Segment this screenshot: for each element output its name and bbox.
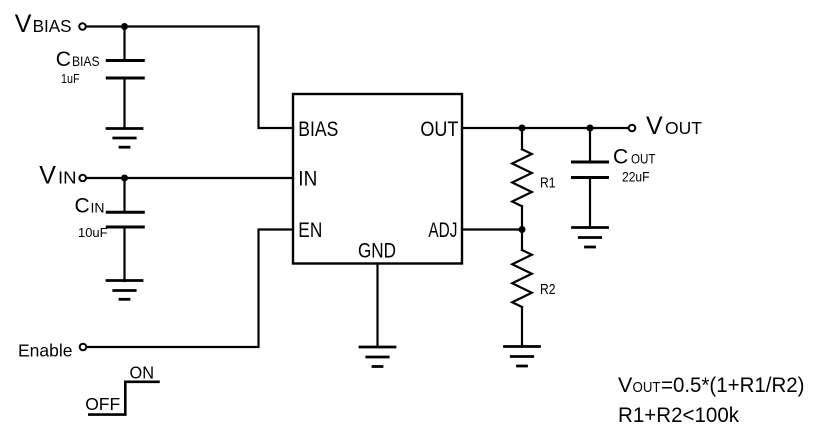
- enable waveform step: [89, 382, 158, 415]
- wire COUT bottom: [589, 179, 591, 228]
- svg-text:C: C: [75, 194, 90, 217]
- ground (CIN): [107, 281, 142, 300]
- terminal Enable: [80, 344, 87, 351]
- svg-text:OUT: OUT: [631, 151, 656, 167]
- resistor R1: [512, 149, 532, 206]
- svg-text:BIAS: BIAS: [72, 53, 100, 69]
- capacitor CIN: [107, 212, 143, 227]
- wire CIN bottom: [123, 229, 125, 282]
- svg-text:1uF: 1uF: [61, 71, 80, 86]
- wire OUT to VOUT: [462, 127, 629, 129]
- svg-text:=0.5*(1+R1/R2): =0.5*(1+R1/R2): [661, 373, 805, 397]
- wire R2 bottom: [521, 307, 523, 347]
- svg-text:OUT: OUT: [665, 118, 702, 138]
- svg-text:Enable: Enable: [18, 340, 73, 360]
- wire CBIAS bottom: [123, 80, 125, 129]
- label CBIAS: [56, 48, 100, 71]
- svg-text:C: C: [56, 48, 71, 71]
- junction OUT/COUT: [587, 125, 594, 132]
- wire VIN to IN pin: [87, 177, 293, 179]
- label COUT: [613, 146, 656, 169]
- junction ADJ/R1/R2: [519, 226, 526, 233]
- op-amp U1 (regulator box): [293, 94, 462, 264]
- ground (COUT): [573, 228, 608, 248]
- svg-text:R1+R2<100k: R1+R2<100k: [618, 403, 739, 427]
- node VOUT label: [646, 112, 702, 140]
- node VIN label: [39, 162, 76, 190]
- svg-text:OUT: OUT: [633, 379, 661, 396]
- svg-text:GND: GND: [358, 239, 396, 263]
- ground (GND pin): [360, 347, 395, 367]
- junction VBIAS/CBIAS: [121, 23, 128, 30]
- wire GND pin: [376, 264, 378, 348]
- svg-text:BIAS: BIAS: [33, 16, 72, 36]
- terminal VBIAS: [79, 23, 86, 30]
- svg-text:22uF: 22uF: [622, 170, 650, 185]
- node VBIAS label: [15, 10, 72, 38]
- svg-text:IN: IN: [91, 199, 105, 215]
- svg-text:IN: IN: [58, 168, 77, 188]
- terminal VOUT: [629, 125, 636, 132]
- wire CBIAS top: [123, 27, 125, 60]
- svg-text:R1: R1: [540, 175, 556, 192]
- svg-text:ADJ: ADJ: [428, 218, 457, 242]
- ground (R2): [505, 347, 540, 367]
- svg-text:ON: ON: [130, 363, 155, 383]
- wire R2 top: [521, 230, 523, 251]
- wire CIN top: [123, 178, 125, 211]
- svg-text:OUT: OUT: [420, 117, 458, 141]
- label CIN: [75, 194, 105, 217]
- svg-text:V: V: [15, 10, 32, 38]
- svg-text:EN: EN: [298, 218, 322, 242]
- wire VBIAS to BIAS pin: [259, 27, 294, 129]
- wire VBIAS horizontal: [87, 25, 259, 27]
- junction VIN/CIN: [121, 175, 128, 182]
- wire R1 bottom: [521, 206, 523, 229]
- wire COUT top: [589, 128, 591, 161]
- resistor R2: [512, 250, 532, 307]
- wire ADJ: [462, 228, 522, 230]
- svg-text:V: V: [618, 373, 633, 397]
- junction OUT/R1: [519, 125, 526, 132]
- wire Enable to EN pin: [87, 230, 293, 348]
- svg-text:IN: IN: [298, 167, 317, 191]
- wire R1 top: [521, 128, 523, 149]
- capacitor COUT: [573, 162, 608, 178]
- svg-text:R2: R2: [540, 281, 556, 298]
- svg-text:10uF: 10uF: [78, 225, 108, 240]
- ground (CBIAS): [107, 129, 142, 148]
- svg-text:BIAS: BIAS: [298, 117, 338, 141]
- terminal VIN: [79, 175, 86, 182]
- capacitor CBIAS: [107, 61, 143, 79]
- formula VOUT equation: [618, 373, 805, 397]
- svg-text:OFF: OFF: [85, 394, 120, 414]
- svg-text:V: V: [646, 112, 663, 140]
- svg-text:V: V: [39, 162, 56, 190]
- svg-text:C: C: [613, 146, 628, 169]
